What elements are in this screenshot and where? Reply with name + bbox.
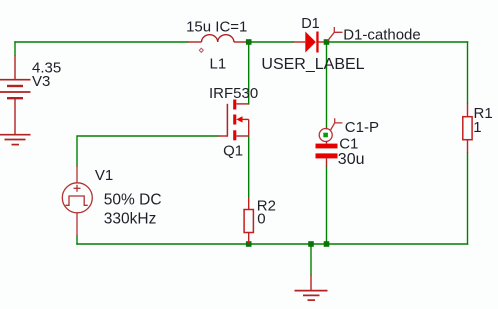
capacitor C1 [316,129,338,167]
svg-text:50% DC: 50% DC [104,192,162,209]
svg-text:D1-cathode: D1-cathode [343,27,421,44]
ground (bottom) [295,275,328,301]
junction node ground [308,241,314,247]
wire drain vertical [248,42,250,104]
svg-text:Q1: Q1 [223,142,243,159]
junction node L1/drain/D1 [246,39,252,45]
polarity diamond L1 [199,48,203,52]
svg-text:V3: V3 [32,73,50,90]
wire left rail to battery [14,42,16,55]
junction node C1 bottom [324,241,330,247]
wire V1 top to gate [77,136,218,166]
wire cathode to right rail [327,41,468,43]
junction node R2 bottom [246,241,252,247]
svg-text:1: 1 [473,119,481,136]
svg-text:30u: 30u [338,151,365,168]
wire V1 bottom [76,236,78,244]
wire C1 top vertical [326,42,328,129]
svg-text:15u IC=1: 15u IC=1 [186,18,247,35]
svg-text:IRF530: IRF530 [209,85,258,102]
svg-text:L1: L1 [210,55,227,72]
wire ground stem [310,244,312,275]
wire C1 bottom vertical [326,167,328,245]
svg-text:C1-P: C1-P [345,119,379,136]
svg-text:D1: D1 [301,16,320,32]
svg-text:USER_LABEL: USER_LABEL [261,56,364,73]
wire D1 anode [249,41,293,43]
node label hook C1-P [330,118,342,130]
ground (battery) [0,135,31,145]
wire right rail lower [467,153,469,244]
svg-text:330kHz: 330kHz [104,211,157,228]
wire right rail upper [467,42,469,104]
battery V3 [0,55,31,134]
resistor R1 [463,104,472,154]
transistor Q1 IRF530 [218,100,249,141]
svg-text:0: 0 [257,211,265,228]
diode D1 [293,32,324,53]
wire bottom rail [77,243,468,245]
inductor L1 [188,35,247,42]
svg-text:V1: V1 [95,167,113,184]
resistor R2 [244,197,253,244]
node label hook D1-cathode [328,27,343,41]
junction node D1-cathode [324,39,330,45]
pulse source V1 [62,166,92,236]
wire source to R2 [248,136,250,197]
wire top rail left [15,41,188,43]
